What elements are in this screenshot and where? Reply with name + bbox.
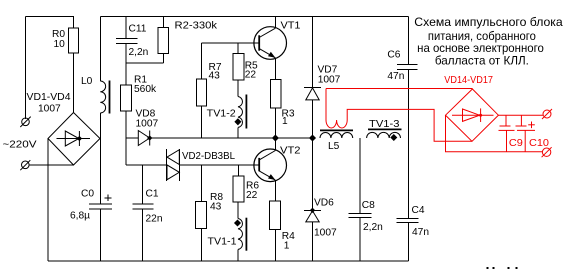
diac VD2 right bar (178, 149, 180, 181)
transformer TV1-3 core bar (368, 128, 402, 130)
bridge internal diode triangle (65, 131, 79, 146)
transformer TV1-1 core bar (245, 218, 247, 251)
red wire DC plus rail (498, 114, 543, 116)
watermark dots (487, 267, 489, 269)
transformer TV1-1 winding arcs (238, 219, 242, 250)
inductor L0 coil arcs (100, 81, 105, 113)
diode VD8 junction dot (147, 135, 152, 140)
svg-text:22: 22 (246, 190, 258, 201)
wire right edge middle segment (408, 69, 410, 218)
wire C11 lower stub (125, 43, 127, 63)
transistor VT2 emitter slant (259, 171, 275, 180)
wire R8 bottom stub (201, 229, 203, 262)
svg-text:TV1-1: TV1-1 (208, 237, 237, 248)
wire C8 top stub (359, 138, 361, 214)
svg-text:VT2: VT2 (280, 145, 301, 156)
svg-text:R2-330k: R2-330k (175, 21, 218, 32)
resistor R3 box (270, 80, 281, 108)
wire R0 top feed (26, 16, 75, 18)
transformer TV1-2 core bar (245, 95, 247, 129)
transistor VT1 base bar (258, 35, 260, 50)
wire R6 to TV1-1 (237, 202, 239, 219)
wire R3 bottom to mid bus (274, 108, 276, 138)
bridge rectifier VD1-VD4 diamond (48, 113, 100, 166)
resistor R0 box (68, 28, 78, 53)
red bridge diode junction dot (479, 114, 482, 117)
svg-text:10: 10 (54, 39, 66, 50)
wire R0 lower stub to bridge (73, 53, 75, 113)
svg-text:C8: C8 (362, 200, 375, 211)
bridge internal diode cathode bar (78, 131, 80, 146)
svg-text:L5: L5 (328, 141, 340, 152)
wire VD7 top stub (312, 17, 314, 88)
wire R7 top stub (201, 43, 203, 79)
transistor VT1 circle (254, 27, 287, 60)
svg-text:2,2n: 2,2n (363, 222, 383, 233)
svg-text:1: 1 (282, 116, 288, 127)
diode VD6 triangle (306, 211, 319, 222)
wire mid bus VD8 cathode to VD7 node (150, 137, 313, 139)
svg-text:1007: 1007 (314, 228, 337, 239)
terminal input 1 (22, 118, 30, 126)
diac VD2 upper triangle (167, 150, 179, 165)
wire left AC drop to terminal (25, 17, 27, 120)
svg-text:22n: 22n (146, 214, 163, 225)
inductor L0 core bar (109, 81, 111, 114)
capacitor C11 plates (116, 37, 138, 39)
wire right edge bottom segment (408, 223, 410, 261)
resistor R1 box (121, 85, 132, 111)
svg-text:C10: C10 (529, 138, 549, 149)
wire R5 top stub (237, 43, 239, 54)
transformer TV1-3 winding arcs (367, 132, 401, 138)
svg-text:VD6: VD6 (314, 198, 334, 209)
wire bottom bus (48, 260, 409, 262)
transformer TV1-2 phasing dot (234, 118, 241, 125)
svg-text:C6: C6 (387, 50, 400, 61)
wire C11/R1/R2 node (126, 62, 164, 64)
terminal output plus (543, 110, 551, 118)
wire R2 bottom stub (162, 54, 164, 64)
L5 secondary red winding and AC feeds to output bridge (326, 89, 472, 142)
transformer TV1-1 phasing dot (234, 219, 241, 226)
diode VD7 cathode bar (304, 86, 321, 88)
wire right edge top segment (408, 17, 410, 65)
red wire DC minus rail (446, 115, 543, 152)
red bridge internal diode triangle (463, 109, 480, 121)
wire R5 to TV1-2 (237, 80, 239, 96)
wire AC terminal 2 to bridge (29, 164, 74, 166)
terminal output minus (542, 148, 550, 156)
inductor L5 winding arcs (320, 133, 353, 138)
wire C1 bottom stub (142, 209, 144, 261)
svg-text:43: 43 (210, 202, 222, 213)
svg-text:балласта от КЛЛ.: балласта от КЛЛ. (435, 53, 529, 67)
resistor R6 box (233, 176, 244, 202)
svg-text:VD1-VD4: VD1-VD4 (27, 92, 71, 103)
svg-text:1007: 1007 (136, 119, 159, 130)
svg-text:47n: 47n (412, 227, 429, 238)
wire VT1 emitter to R3 (274, 58, 276, 80)
wire TV1-2 bottom to mid bus (237, 127, 239, 138)
capacitor C4 plates (396, 217, 418, 219)
wire R4 bottom to bus (274, 229, 276, 261)
bridge internal diode junction dot (77, 136, 82, 141)
junction dot mid bus R3/VT2 (272, 134, 279, 141)
wire diac to VT2 base (179, 164, 259, 166)
wire VD6 anode to bottom bus (312, 222, 314, 261)
svg-text:47n: 47n (387, 71, 404, 82)
wire TV1-1 bottom to bus (237, 249, 239, 261)
svg-text:~220V: ~220V (3, 140, 37, 151)
bridge rectifier VD14-VD17 diamond (446, 89, 499, 141)
junction dot mid bus VD7/VD6 (309, 134, 316, 141)
svg-text:1007: 1007 (318, 74, 341, 85)
resistor R2 box (158, 28, 169, 54)
svg-text:C1: C1 (146, 189, 159, 200)
svg-text:Схема импульсного блока: Схема импульсного блока (414, 15, 563, 29)
transistor VT2 circle (254, 149, 287, 182)
svg-text:C11: C11 (129, 24, 147, 35)
red bridge internal diode line (452, 114, 494, 116)
terminal input 2 (22, 161, 30, 169)
transistor VT2 collector slant (259, 151, 275, 160)
wire C8 bottom stub (359, 218, 361, 261)
resistor R4 box (270, 201, 281, 229)
wire VD8 anode lead (126, 137, 138, 139)
resistor R8 box (196, 202, 207, 229)
wire VT1 collector to top bus (274, 17, 276, 29)
diode VD6 junction dot (310, 208, 315, 213)
wire VT2 collector to mid bus (274, 138, 276, 151)
inductor L5 core bar (320, 129, 353, 131)
svg-text:43: 43 (209, 71, 221, 82)
svg-text:1007: 1007 (38, 104, 61, 115)
capacitor C8 plates (349, 213, 372, 215)
bridge internal diode line (57, 138, 91, 140)
transistor VT2 base bar (258, 158, 260, 171)
C0 plus mark (105, 197, 112, 199)
red wire AC feed top (326, 88, 473, 90)
diode VD8 cathode bar (149, 131, 151, 146)
svg-text:22: 22 (245, 70, 257, 81)
svg-text:1: 1 (284, 241, 290, 252)
svg-text:VD14-VD17: VD14-VD17 (444, 75, 493, 86)
diode VD6 cathode bar (304, 209, 321, 211)
capacitor C0 plates (89, 203, 112, 205)
wire R1 bottom stub down to diac line (125, 111, 127, 165)
capacitor C1 plates (133, 203, 154, 205)
wire VT1 base (202, 42, 260, 44)
wire C0 bottom (99, 209, 101, 261)
svg-text:TV1-2: TV1-2 (207, 109, 236, 120)
svg-text:L0: L0 (81, 76, 93, 87)
wire top bus (100, 16, 408, 18)
diode VD8 triangle (138, 131, 149, 146)
wire R1 top stub (125, 63, 127, 85)
C10 polarity plus mark (528, 124, 535, 126)
wire R8 top stub (201, 165, 203, 202)
capacitor C6 plates (397, 63, 417, 65)
transformer TV1-2 winding arcs (238, 97, 242, 128)
red bridge internal diode cathode bar (480, 108, 482, 122)
svg-text:560k: 560k (134, 84, 157, 95)
transistor VT2 emitter arrow (268, 174, 275, 180)
diac VD2 lower triangle (167, 165, 179, 180)
transistor VT1 collector slant (259, 28, 275, 37)
wire L0 top (99, 17, 101, 82)
wire R2 top stub (162, 17, 164, 28)
svg-text:C0: C0 (81, 189, 94, 200)
resistor R5 box (233, 53, 244, 80)
svg-text:C9: C9 (509, 138, 523, 149)
wire C1 top stub (142, 165, 144, 204)
capacitor C9 (505, 115, 507, 126)
wire bridge minus drop (47, 139, 49, 262)
svg-text:VT1: VT1 (281, 21, 301, 32)
wire R7 bottom stub (201, 106, 203, 138)
diode VD7 triangle (306, 88, 319, 100)
wire R6 top stub (237, 165, 239, 176)
capacitor C10 (520, 115, 522, 126)
wire diac line left (126, 164, 167, 166)
transformer TV1-3 phasing dot (390, 134, 397, 141)
wire R0 upper stub (73, 17, 75, 29)
resistor R7 box (196, 79, 206, 106)
svg-text:TV1-3: TV1-3 (369, 119, 400, 130)
svg-text:VD2-DB3BL: VD2-DB3BL (182, 151, 235, 162)
transistor VT1 emitter slant (259, 49, 275, 58)
diac VD2 left bar (166, 149, 168, 181)
svg-text:2,2n: 2,2n (129, 47, 149, 58)
svg-text:6,8µ: 6,8µ (70, 211, 90, 222)
wire VD6 top stub (312, 138, 314, 210)
svg-text:C4: C4 (412, 205, 425, 216)
wire VD7 anode to mid bus (312, 100, 314, 138)
wire L0 bottom / bridge plus / C0 top (99, 113, 101, 204)
wire VT2 emitter to R4 (274, 180, 276, 201)
wire C11 upper stub (125, 17, 127, 39)
transistor VT1 emitter arrow (268, 52, 275, 58)
